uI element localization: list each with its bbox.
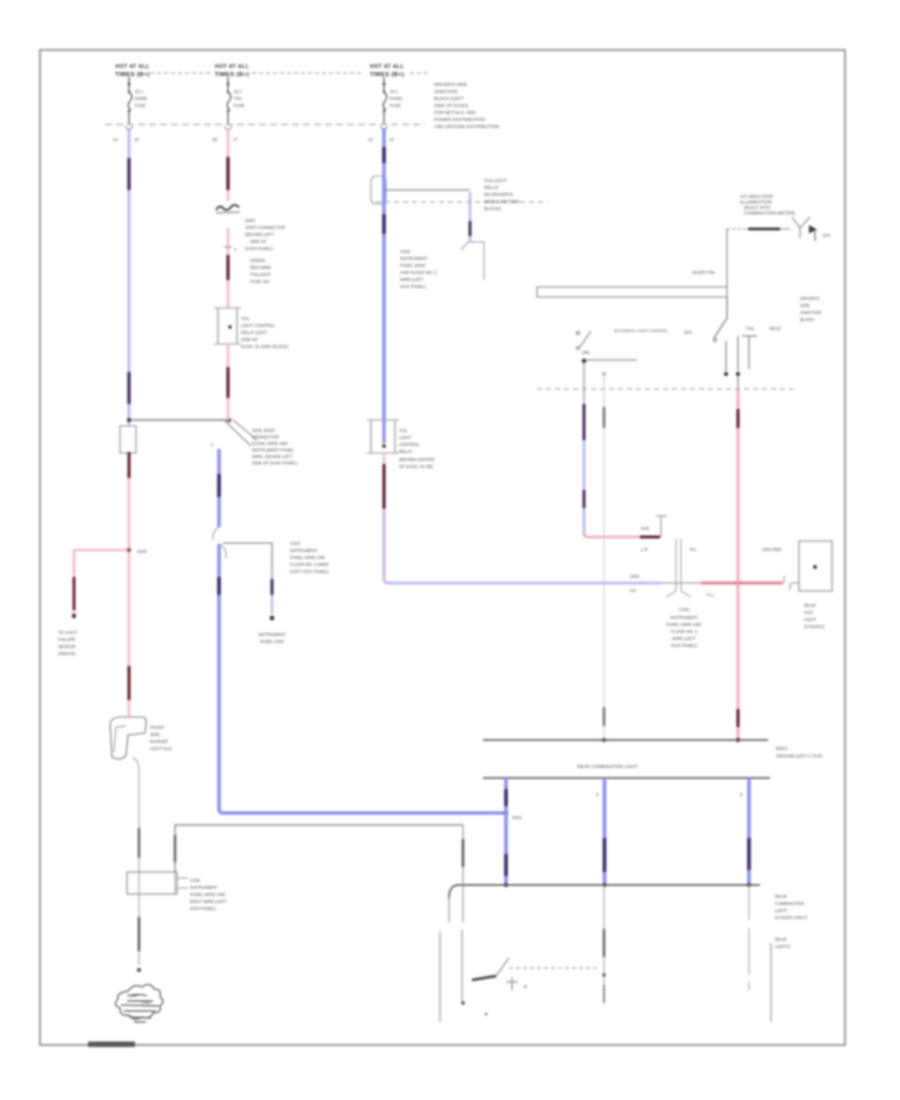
svg-text:17: 17	[233, 137, 238, 142]
svg-text:(CANADA ONLY): (CANADA ONLY)	[775, 915, 808, 920]
svg-text:LIGHTS: LIGHTS	[775, 944, 790, 949]
svg-text:TO LIGHT: TO LIGHT	[58, 630, 78, 635]
svg-text:CONNECTOR: CONNECTOR	[252, 435, 279, 440]
svg-text:CONTROL: CONTROL	[399, 442, 420, 447]
svg-text:LIGHT: LIGHT	[775, 908, 788, 913]
svg-text:RELAY: RELAY	[484, 185, 499, 190]
svg-text:DRIVER'S SIDE: DRIVER'S SIDE	[434, 82, 467, 87]
svg-text:FUSE: FUSE	[234, 103, 245, 108]
svg-text:INSTRUMENT PANEL: INSTRUMENT PANEL	[252, 448, 295, 453]
svg-text:BODY: BODY	[776, 746, 788, 751]
svg-text:HOT AT ALL: HOT AT ALL	[370, 64, 405, 70]
svg-text:FUSE: FUSE	[390, 103, 401, 108]
svg-text:COMBINATION METER): COMBINATION METER)	[744, 211, 795, 216]
svg-text:ILLUMINATION: ILLUMINATION	[740, 200, 772, 205]
svg-text:PANEL WIRE: PANEL WIRE	[400, 263, 426, 268]
svg-text:B-R: B-R	[823, 233, 830, 238]
svg-text:BODY WIRE (LEFT: BODY WIRE (LEFT	[190, 899, 227, 904]
svg-text:PANEL WIRE AND: PANEL WIRE AND	[666, 622, 701, 627]
svg-text:1C: 1C	[368, 137, 373, 142]
svg-text:DASH PANEL): DASH PANEL)	[245, 246, 273, 251]
svg-text:SHORT PIN: SHORT PIN	[692, 270, 715, 275]
svg-text:15 A: 15 A	[390, 89, 399, 94]
svg-text:RELAY: RELAY	[399, 449, 413, 454]
svg-text:FOR DETAILS, SEE: FOR DETAILS, SEE	[434, 110, 476, 115]
svg-text:BLOCK): BLOCK)	[484, 206, 502, 211]
svg-text:R-L: R-L	[690, 547, 697, 552]
svg-text:GND: GND	[141, 1000, 150, 1005]
svg-text:TAIL: TAIL	[241, 316, 250, 321]
svg-text:1B: 1B	[212, 137, 217, 142]
svg-text:DRL: DRL	[582, 350, 591, 355]
svg-text:(CANADA): (CANADA)	[804, 624, 825, 629]
svg-text:KICK PANEL): KICK PANEL)	[190, 906, 216, 911]
svg-text:FAILURE: FAILURE	[58, 637, 76, 642]
svg-text:TIMES (B+): TIMES (B+)	[370, 72, 405, 78]
svg-text:WIRE, BEHIND LEFT: WIRE, BEHIND LEFT	[252, 454, 293, 459]
svg-text:TAIL: TAIL	[399, 428, 408, 433]
svg-text:INSTRUMENT: INSTRUMENT	[670, 615, 698, 620]
svg-text:DOME: DOME	[135, 96, 148, 101]
svg-text:A/T INDICATOR: A/T INDICATOR	[740, 194, 774, 199]
svg-text:INSTRUMENT: INSTRUMENT	[190, 885, 218, 890]
svg-text:INSTRUMENT: INSTRUMENT	[400, 256, 428, 261]
svg-text:C313: C313	[290, 541, 301, 546]
svg-text:PANEL GND: PANEL GND	[260, 639, 284, 644]
svg-text:INSTRUMENT: INSTRUMENT	[290, 548, 318, 553]
svg-text:WIRE (LEFT: WIRE (LEFT	[400, 277, 424, 282]
svg-text:14: 14	[389, 137, 394, 142]
svg-text:TAILLIGHT: TAILLIGHT	[484, 178, 507, 183]
svg-text:KICK PANEL): KICK PANEL)	[400, 284, 426, 289]
svg-text:(BEHIND LEFT: (BEHIND LEFT	[245, 232, 274, 237]
svg-text:GRN: GRN	[630, 574, 639, 579]
svg-text:BODY: BODY	[127, 993, 139, 998]
svg-text:0.5: 0.5	[630, 588, 636, 593]
svg-text:FOG: FOG	[804, 610, 813, 615]
svg-text:(BEHIND CENTER: (BEHIND CENTER	[399, 457, 435, 462]
svg-text:C315: C315	[679, 607, 690, 612]
svg-text:L-R: L-R	[641, 547, 648, 552]
svg-text:FUSE: FUSE	[135, 103, 146, 108]
svg-text:1A: 1A	[113, 137, 118, 142]
svg-text:WIRE (LEFT: WIRE (LEFT	[672, 636, 696, 641]
svg-text:HEAD: HEAD	[769, 326, 781, 331]
svg-text:C316: C316	[400, 249, 411, 254]
svg-text:SIDE: SIDE	[800, 303, 810, 308]
svg-text:JOINT CONNECTOR: JOINT CONNECTOR	[245, 225, 285, 230]
svg-text:GREEN-: GREEN-	[250, 258, 267, 263]
svg-text:REAR: REAR	[775, 894, 787, 899]
svg-text:JUNCTION: JUNCTION	[800, 310, 821, 315]
svg-text:SIDE: SIDE	[150, 732, 160, 737]
svg-text:SIDE JUNCTION: SIDE JUNCTION	[484, 199, 519, 204]
svg-text:PANEL WIRE AND: PANEL WIRE AND	[190, 892, 225, 897]
svg-text:GRN-RED: GRN-RED	[762, 547, 782, 552]
svg-text:AUTOMATIC LIGHT CONTROL: AUTOMATIC LIGHT CONTROL	[614, 329, 668, 333]
svg-text:AND FLOOR NO. 2: AND FLOOR NO. 2	[400, 270, 437, 275]
svg-text:SIDE OF DASH PANEL): SIDE OF DASH PANEL)	[252, 461, 298, 466]
svg-text:REAR COMBINATION LIGHT: REAR COMBINATION LIGHT	[577, 764, 638, 769]
svg-text:C330: C330	[190, 878, 201, 883]
svg-text:LIGHT CONTROL: LIGHT CONTROL	[241, 323, 276, 328]
svg-text:SIDE OF: SIDE OF	[241, 337, 258, 342]
svg-text:BLOCK (LEFT: BLOCK (LEFT	[434, 96, 464, 101]
svg-text:POWER DISTRIBUTION: POWER DISTRIBUTION	[434, 117, 485, 122]
svg-text:OFF: OFF	[684, 330, 693, 335]
svg-text:S205 JOINT: S205 JOINT	[252, 428, 275, 433]
svg-text:INSTRUMENT: INSTRUMENT	[258, 632, 286, 637]
svg-text:REAR: REAR	[775, 937, 787, 942]
svg-text:RED WIRE: RED WIRE	[250, 265, 271, 270]
svg-text:JUNCTION: JUNCTION	[434, 89, 457, 94]
svg-text:TIMES (B+): TIMES (B+)	[215, 72, 250, 78]
svg-text:15 A: 15 A	[234, 89, 243, 94]
svg-text:LIGHT: LIGHT	[804, 617, 817, 622]
svg-text:TAILLIGHT: TAILLIGHT	[250, 272, 271, 277]
svg-text:(LEFT KICK PANEL): (LEFT KICK PANEL)	[290, 569, 329, 574]
svg-text:S203: S203	[137, 549, 147, 554]
svg-text:15 A: 15 A	[135, 89, 144, 94]
svg-text:DRIVER'S: DRIVER'S	[800, 296, 820, 301]
svg-text:SIDE OF DASH).: SIDE OF DASH).	[434, 103, 469, 108]
svg-text:S204: S204	[245, 218, 255, 223]
svg-text:(SEDAN): (SEDAN)	[58, 651, 76, 656]
svg-text:(COWL WIRE AND: (COWL WIRE AND	[252, 441, 288, 446]
svg-text:TAIL: TAIL	[746, 326, 755, 331]
svg-text:16: 16	[134, 137, 139, 142]
svg-text:PANEL: PANEL	[390, 96, 404, 101]
svg-text:GROUND (LEFT C PLR): GROUND (LEFT C PLR)	[776, 754, 823, 759]
svg-text:HOT AT ALL: HOT AT ALL	[215, 64, 250, 70]
svg-text:TIMES (B+): TIMES (B+)	[115, 72, 150, 78]
svg-text:SIDE OF: SIDE OF	[250, 239, 267, 244]
svg-text:BLOCK: BLOCK	[800, 317, 814, 322]
svg-text:LIGHT (LH): LIGHT (LH)	[150, 746, 172, 751]
svg-text:B: B	[524, 984, 527, 989]
svg-text:KICK PANEL): KICK PANEL)	[671, 643, 697, 648]
svg-text:(IN DRIVER'S: (IN DRIVER'S	[484, 192, 513, 197]
svg-text:TAIL: TAIL	[234, 96, 243, 101]
svg-text:OF DASH, IN J/B): OF DASH, IN J/B)	[399, 464, 433, 469]
svg-text:REAR: REAR	[804, 603, 816, 608]
svg-text:SENSOR: SENSOR	[58, 644, 76, 649]
svg-text:PANEL WIRE AND: PANEL WIRE AND	[290, 555, 325, 560]
svg-text:(BUILT INTO: (BUILT INTO	[744, 205, 771, 210]
svg-text:FLOOR NO. 2 WIRE: FLOOR NO. 2 WIRE	[290, 562, 329, 567]
svg-text:MARKER: MARKER	[150, 739, 168, 744]
svg-text:FLOOR NO. 2: FLOOR NO. 2	[671, 629, 698, 634]
svg-text:FUSE 10A: FUSE 10A	[250, 279, 270, 284]
svg-text:AND GROUND DISTRIBUTION.: AND GROUND DISTRIBUTION.	[434, 124, 500, 129]
svg-text:COMBINATION: COMBINATION	[775, 901, 804, 906]
svg-text:FRONT: FRONT	[150, 725, 165, 730]
svg-text:HOT AT ALL: HOT AT ALL	[115, 64, 150, 70]
svg-text:RELAY (LEFT: RELAY (LEFT	[241, 330, 268, 335]
svg-text:DASH, IN JUNC BLOCK): DASH, IN JUNC BLOCK)	[241, 344, 289, 349]
svg-text:LIGHT: LIGHT	[399, 435, 412, 440]
svg-text:W-B: W-B	[641, 526, 649, 531]
svg-text:S312: S312	[512, 815, 522, 820]
